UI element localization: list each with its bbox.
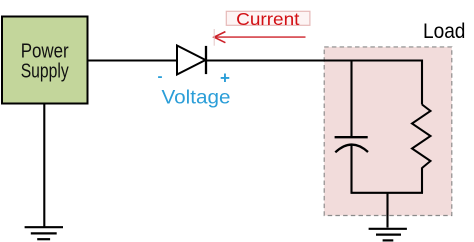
diode D1 cathode bar: [205, 46, 207, 74]
wire vertical from power supply to ground: [43, 103, 45, 227]
svg-text:Load: Load: [423, 20, 466, 43]
ground left: [25, 227, 63, 239]
capacitor C1 top plate: [335, 136, 368, 138]
svg-text:Current: Current: [236, 9, 299, 29]
wire resistor branch lower: [421, 168, 423, 194]
wire capacitor branch lower: [350, 146, 352, 194]
current label box: [226, 11, 310, 25]
current arrow shaft: [215, 36, 306, 38]
svg-text:Voltage: Voltage: [162, 88, 231, 109]
svg-text:-: -: [158, 68, 163, 85]
svg-text:+: +: [220, 68, 230, 87]
wire capacitor branch upper: [350, 60, 352, 137]
svg-text:Supply: Supply: [21, 60, 69, 82]
current arrow head: [214, 32, 225, 43]
svg-text:Power: Power: [21, 41, 69, 63]
wire ground stem right: [386, 193, 388, 228]
wire main horizontal from power supply to load: [87, 59, 423, 61]
wire load bottom: [351, 192, 424, 194]
power supply box: [2, 17, 88, 104]
diode D1 triangle: [177, 46, 206, 75]
load region box (dashed pink): [324, 47, 452, 216]
current arrow endpoint tick: [213, 29, 215, 46]
ground right: [369, 229, 407, 241]
wire resistor branch upper: [421, 60, 423, 105]
capacitor C1 curved plate: [335, 145, 368, 153]
resistor R1 zigzag: [412, 105, 431, 169]
